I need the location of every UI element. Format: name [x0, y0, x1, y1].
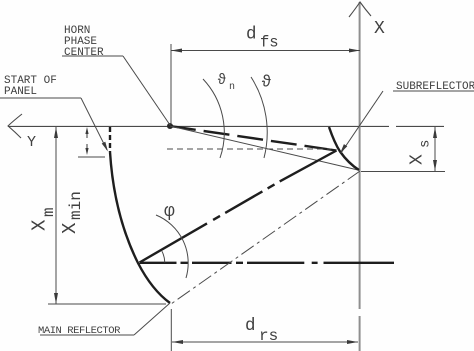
X_s extension line (bottom) — [361, 171, 445, 173]
svg-text:Y: Y — [27, 134, 36, 151]
main reflector curve — [110, 152, 170, 303]
svg-text:m: m — [40, 207, 58, 217]
X_s arrows — [433, 127, 437, 171]
svg-text:X: X — [374, 19, 385, 39]
svg-text:min: min — [67, 191, 85, 220]
svg-text:X: X — [59, 222, 81, 234]
outgoing beam centerline (thick dash-dot horizontal) — [140, 262, 395, 264]
horn edge ray (thin) to subreflector bottom edge — [170, 126, 358, 170]
X_s label — [408, 154, 428, 165]
X_min label — [59, 222, 81, 234]
X_m dimension arrows — [54, 127, 58, 304]
HORN PHASE CENTER label — [64, 25, 104, 59]
START OF PANEL leader arrowhead — [102, 142, 108, 152]
svg-text:ϑ: ϑ — [262, 73, 272, 92]
X_m dimension line — [55, 127, 57, 304]
d_fs dimension — [171, 44, 360, 124]
svg-text:d: d — [245, 316, 256, 336]
X_s dimension line — [434, 127, 436, 171]
SUBREFLECTOR underline and leader — [341, 91, 474, 153]
svg-text:PANEL: PANEL — [4, 86, 37, 98]
svg-text:ϑ: ϑ — [218, 73, 227, 89]
horn phase center dot — [167, 123, 173, 129]
svg-text:rs: rs — [259, 327, 278, 345]
MAIN REFLECTOR underline and leader — [40, 303, 170, 335]
start-of-panel extension line — [78, 156, 105, 158]
X axis arrowhead — [349, 2, 371, 17]
svg-text:X: X — [29, 219, 51, 231]
subreflector curve — [329, 127, 359, 170]
svg-text:n: n — [229, 82, 235, 93]
main ray (thick dash-dot) main reflector to subreflector — [140, 151, 337, 263]
svg-text:fs: fs — [260, 34, 279, 52]
X axis — [359, 2, 361, 351]
X_min small dimension arrows — [85, 127, 88, 155]
Y axis arrowhead — [8, 114, 22, 138]
phi angle arc — [156, 215, 188, 278]
main reflector hidden top (dashed) — [109, 127, 111, 152]
svg-text:CENTER: CENTER — [64, 47, 104, 59]
dashed horizontal reference line — [167, 148, 331, 150]
START OF PANEL underline and leader — [0, 98, 107, 150]
bottom extension line (main reflector lower edge level) — [48, 303, 166, 305]
START OF PANEL label — [4, 75, 57, 98]
svg-text:X: X — [408, 154, 428, 165]
svg-text:φ: φ — [164, 202, 175, 222]
d_rs arrows — [172, 340, 358, 344]
svg-text:d: d — [246, 25, 257, 45]
theta_n angle arc — [203, 79, 224, 158]
edge ray (thin dash-dot) main reflector bottom to subreflector bottom — [171, 171, 360, 304]
X_m label — [29, 219, 51, 231]
small angle arc at vertex — [162, 251, 165, 262]
horn ray (thick dashed) to subreflector — [170, 126, 337, 151]
Y axis — [8, 125, 444, 127]
svg-text:s: s — [418, 140, 434, 148]
d_fs arrows — [171, 49, 360, 53]
d_rs dimension — [171, 309, 358, 351]
SUBREFLECTOR leader arrowhead — [340, 144, 347, 153]
HORN PHASE CENTER underline and leader — [62, 56, 170, 125]
theta angle arc — [251, 77, 267, 158]
